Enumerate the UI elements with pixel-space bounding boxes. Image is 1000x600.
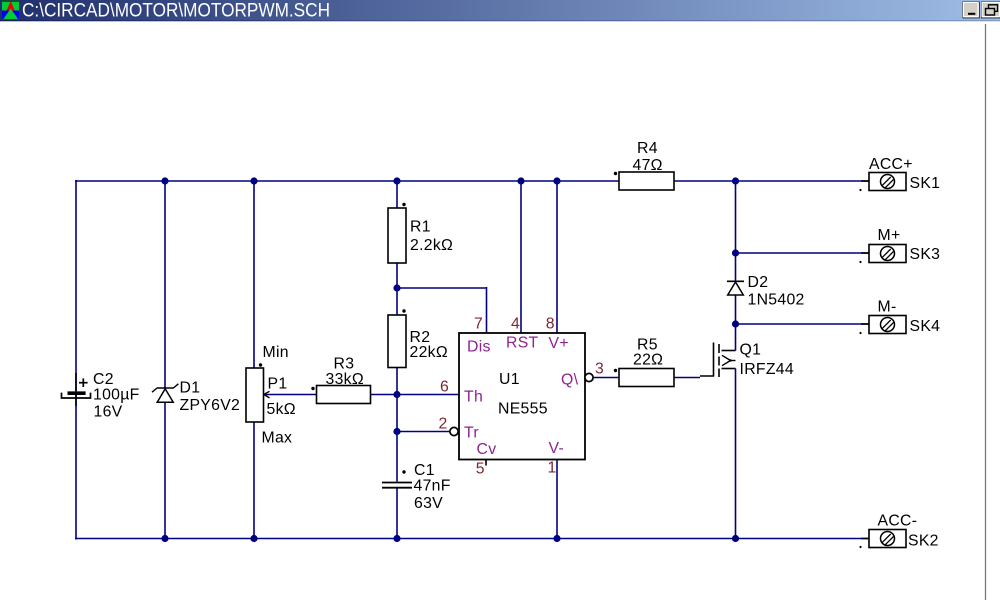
resistor R2: [388, 309, 448, 367]
pin 2 bubble: [450, 427, 458, 435]
wire C1 bottom lead: [396, 489, 398, 539]
svg-text:C1: C1: [414, 462, 435, 479]
svg-text:47nF: 47nF: [414, 478, 451, 495]
svg-text:Q1: Q1: [740, 342, 762, 359]
svg-text:V-: V-: [549, 440, 565, 457]
svg-text:5kΩ: 5kΩ: [267, 401, 296, 418]
svg-text:SK3: SK3: [910, 246, 941, 263]
node bottom pin1: [553, 535, 560, 542]
svg-text:NE555: NE555: [498, 401, 548, 418]
svg-text:Tr: Tr: [464, 425, 479, 442]
capacitor C2: [62, 371, 140, 421]
node top pin4: [517, 177, 524, 184]
terminal SK4: [859, 299, 940, 336]
wire drain column middle: [735, 295, 737, 351]
node top R1: [393, 177, 400, 184]
node Tr: [393, 428, 400, 435]
wire P1 column lower: [253, 422, 255, 539]
zener diode D1: [152, 380, 240, 415]
svg-text:33kΩ: 33kΩ: [326, 371, 364, 388]
wire R1 top lead: [396, 181, 398, 208]
svg-text:100µF: 100µF: [93, 387, 140, 404]
wire pin7 net vertical: [486, 287, 488, 333]
sheet right border: [985, 24, 987, 600]
svg-text:IRFZ44: IRFZ44: [740, 361, 794, 378]
svg-text:22kΩ: 22kΩ: [410, 344, 448, 361]
wire pin1 net: [556, 460, 558, 539]
svg-text:R1: R1: [410, 219, 431, 236]
svg-text:ACC+: ACC+: [869, 156, 913, 173]
svg-text:RST: RST: [506, 335, 539, 352]
svg-text:2.2kΩ: 2.2kΩ: [410, 237, 453, 254]
wire top rail VCC: [75, 180, 869, 182]
svg-text:5: 5: [476, 461, 485, 478]
transistor Q1: [700, 342, 794, 379]
node top P1: [250, 177, 257, 184]
capacitor C1: [382, 462, 451, 512]
wire pin8 net: [556, 181, 558, 333]
wire M- net: [736, 323, 870, 325]
terminal SK2: [859, 513, 938, 550]
terminal SK3: [859, 227, 940, 263]
pin 5 stub: [485, 460, 487, 466]
svg-text:22Ω: 22Ω: [633, 352, 663, 369]
svg-text:SK4: SK4: [910, 318, 941, 335]
svg-text:16V: 16V: [94, 404, 123, 421]
svg-text:R3: R3: [334, 356, 355, 373]
wire Th net: [264, 394, 459, 396]
svg-text:Dis: Dis: [467, 339, 491, 356]
node top pin8: [553, 177, 560, 184]
wire D1 column upper: [164, 181, 166, 388]
wire Q output net: [593, 377, 700, 379]
maximize button: [982, 2, 1000, 18]
node bottom P1: [250, 535, 257, 542]
app icon: [2, 1, 19, 21]
node top drain: [732, 177, 739, 184]
resistor R5: [614, 337, 674, 387]
node R1-R2 pin7: [393, 284, 400, 291]
svg-text:47Ω: 47Ω: [633, 157, 663, 174]
wire left rail: [75, 180, 77, 540]
wire R1-R2 segment: [396, 263, 398, 315]
svg-text:M+: M+: [878, 227, 901, 244]
svg-text:8: 8: [546, 316, 555, 333]
svg-text:D1: D1: [180, 380, 201, 397]
svg-text:4: 4: [511, 316, 520, 333]
node Th: [393, 391, 400, 398]
svg-text:R4: R4: [637, 140, 658, 157]
wire R2 to C1 segment: [396, 368, 398, 482]
svg-text:Min: Min: [263, 344, 289, 361]
svg-text:3: 3: [595, 361, 604, 378]
wire pin7 net horizontal: [397, 287, 487, 289]
node M-: [732, 320, 739, 327]
svg-text:6: 6: [440, 379, 449, 396]
wire bottom rail GND: [75, 538, 869, 540]
wire Tr net: [397, 431, 450, 433]
svg-text:1: 1: [548, 460, 557, 477]
svg-text:7: 7: [474, 316, 483, 333]
wire drain column upper: [735, 181, 737, 281]
pin 3 bubble: [585, 373, 593, 381]
svg-text:ACC-: ACC-: [878, 513, 918, 530]
resistor R4: [614, 140, 674, 190]
svg-text:P1: P1: [268, 376, 288, 393]
svg-text:2: 2: [439, 416, 448, 433]
diode D2: [727, 274, 805, 309]
node bottom D1: [161, 535, 168, 542]
svg-text:1N5402: 1N5402: [748, 292, 805, 309]
wire P1 column upper: [253, 181, 255, 368]
terminal SK1: [859, 156, 940, 192]
potentiometer P1: [246, 344, 296, 447]
svg-text:C:\CIRCAD\MOTOR\MOTORPWM.SCH: C:\CIRCAD\MOTOR\MOTORPWM.SCH: [22, 1, 330, 22]
svg-text:Th: Th: [464, 389, 483, 406]
resistor R3: [311, 356, 370, 404]
node bottom C1: [393, 535, 400, 542]
svg-text:SK2: SK2: [908, 533, 939, 550]
svg-text:V+: V+: [549, 335, 569, 352]
svg-text:D2: D2: [748, 274, 769, 291]
svg-text:Cv: Cv: [477, 441, 497, 458]
node bottom source: [732, 535, 739, 542]
title bar: [0, 0, 1000, 21]
svg-text:ZPY6V2: ZPY6V2: [180, 397, 241, 414]
node top D1: [161, 177, 168, 184]
svg-text:Q\: Q\: [561, 372, 579, 389]
svg-text:Max: Max: [262, 430, 293, 447]
wire D1 column lower: [164, 402, 166, 539]
svg-text:C2: C2: [93, 371, 114, 388]
svg-text:M-: M-: [878, 299, 897, 316]
wire source column lower: [735, 369, 737, 539]
node M+: [732, 249, 739, 256]
resistor R1: [388, 203, 453, 263]
minimize button: [963, 2, 980, 18]
svg-text:U1: U1: [499, 371, 520, 388]
wire pin4 net: [520, 181, 522, 333]
op-amp U1 NE555: [459, 333, 585, 460]
wire M+ net: [736, 252, 870, 254]
svg-text:63V: 63V: [414, 495, 443, 512]
svg-text:SK1: SK1: [910, 175, 941, 192]
